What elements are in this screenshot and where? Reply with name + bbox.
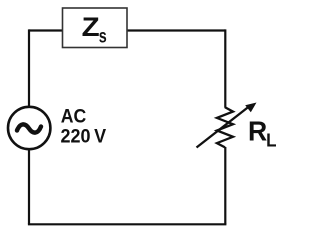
svg-text:AC: AC <box>61 105 87 127</box>
label Zs (Z with subscript s) <box>82 12 107 47</box>
variable resistor RL adjustment arrow shaft <box>197 107 250 148</box>
label AC 220 V (source value) <box>61 105 107 147</box>
wire: right upper, node B down to RL top terminal <box>224 29 226 107</box>
svg-text:s: s <box>99 25 107 47</box>
AC source V1 circle body <box>8 107 50 149</box>
wire: left upper, node A down to AC source + terminal <box>28 29 30 106</box>
wire: left lower, AC source - terminal down to node D <box>28 150 30 225</box>
svg-text:Z: Z <box>82 12 100 42</box>
svg-text:220 V: 220 V <box>61 125 107 147</box>
AC source V1 sine-wave symbol <box>17 124 41 132</box>
wire: bottom return, node D to node C <box>28 223 227 225</box>
variable resistor RL adjustment arrow head <box>245 103 256 113</box>
svg-text:L: L <box>266 131 276 151</box>
svg-text:R: R <box>248 115 267 146</box>
variable resistor RL zigzag body <box>217 107 233 147</box>
label RL (R with subscript L, load resistor) <box>248 115 277 150</box>
impedance box Zs (source impedance, rectangle body) <box>63 8 128 48</box>
wire: top-left, node A to Zs left terminal <box>29 29 63 31</box>
wire: top-right, Zs right terminal to node B <box>127 29 225 31</box>
wire: right lower, RL bottom terminal down to node C <box>224 147 226 224</box>
